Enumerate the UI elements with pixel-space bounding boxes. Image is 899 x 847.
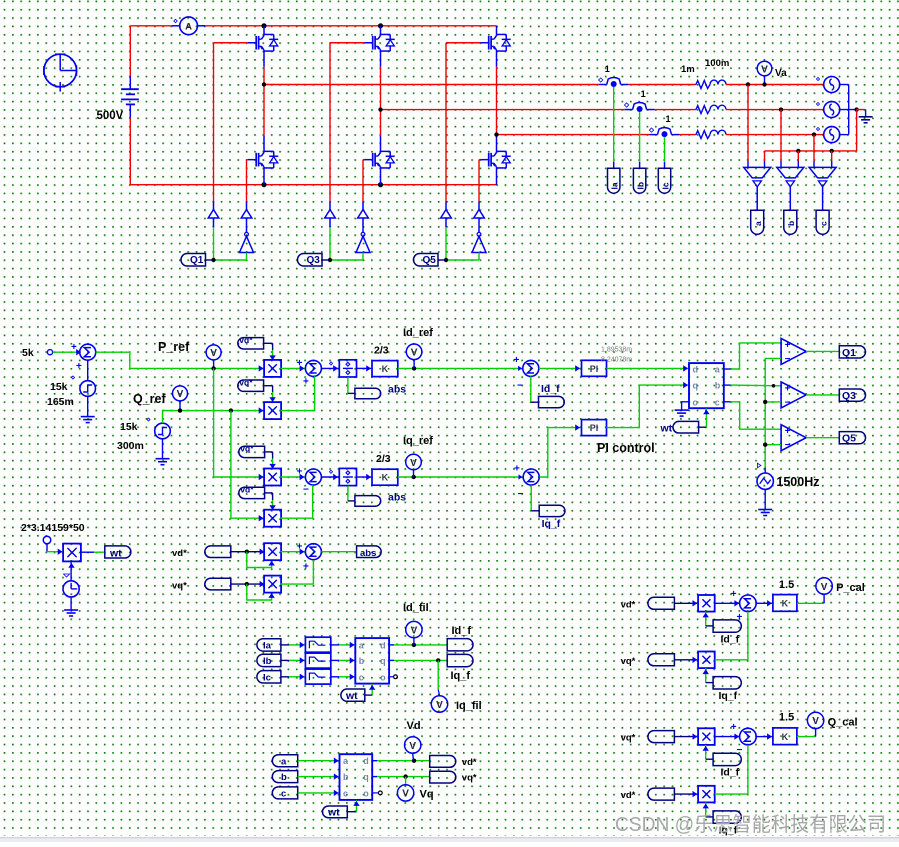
- svg-text:o: o: [363, 788, 369, 798]
- svg-text:Ic: Ic: [263, 672, 271, 683]
- wire vsensor1 right input: [764, 151, 766, 168]
- tag phase a: [751, 210, 764, 234]
- svg-text:V: V: [402, 789, 409, 800]
- wire sum4 to PI2: [540, 424, 581, 477]
- svg-text:V: V: [411, 348, 418, 359]
- tag Ia in: [257, 639, 281, 652]
- label PI control: [597, 441, 655, 455]
- svg-text:vq*: vq*: [239, 378, 253, 388]
- tag vq* Q_cal1: [648, 731, 675, 743]
- svg-text:Q3: Q3: [307, 255, 321, 266]
- wire vsensor3 output: [822, 186, 824, 210]
- tag Q1 out: [839, 346, 865, 359]
- label abs row2: [388, 492, 406, 504]
- svg-text:K: K: [382, 473, 389, 483]
- svg-text:b: b: [786, 221, 796, 226]
- voltage sensor Vb: [777, 167, 804, 187]
- current sensor Ib: [624, 89, 654, 112]
- wire mul2 to sum Q_cal: [715, 745, 748, 794]
- wire gate signal Q3: [330, 259, 363, 261]
- svg-text:1: 1: [641, 89, 646, 99]
- voltmeter Id_fil: [406, 621, 422, 645]
- wire vq* to mul P_cal2: [674, 657, 697, 663]
- wire sources common: [840, 85, 857, 135]
- wire top rail: [264, 25, 497, 27]
- label vq* store: [462, 773, 477, 784]
- step source 15k/165m: [71, 376, 95, 396]
- svg-text:abs: abs: [388, 492, 406, 504]
- wire sum to K P_cal: [756, 600, 772, 606]
- svg-text:5k: 5k: [22, 347, 34, 359]
- svg-text:b: b: [715, 381, 721, 391]
- wire sum to step1: [87, 360, 89, 381]
- wire o stub current: [389, 676, 394, 678]
- wire emitter bottom Q3b: [380, 168, 382, 185]
- wire filter1 to abc2dq: [331, 642, 355, 648]
- wire gate drive top Q1: [214, 43, 249, 202]
- clock symbol: [44, 54, 77, 91]
- svg-text:Iq_f: Iq_f: [542, 518, 561, 530]
- svg-text:+: +: [785, 383, 791, 394]
- svg-text:+: +: [737, 612, 743, 623]
- wire bottom rail: [130, 118, 496, 185]
- voltmeter Iq_fil: [431, 696, 447, 712]
- junction Id_fil tap: [412, 643, 416, 647]
- svg-text:wt: wt: [345, 690, 358, 702]
- svg-text:o: o: [380, 672, 386, 682]
- wire mulw to wt tag: [81, 551, 105, 553]
- svg-text:c: c: [343, 788, 348, 798]
- transistor Q5b (bottom IGBT): [481, 151, 511, 168]
- comparator comp1: [781, 338, 806, 365]
- svg-text:500V: 500V: [97, 110, 124, 122]
- ammeter A1: [174, 17, 198, 35]
- wire vd*3 to mul5: [231, 549, 265, 555]
- block dq2abc: [689, 363, 724, 408]
- junction vd*3: [245, 550, 249, 554]
- svg-text:V: V: [409, 741, 416, 752]
- junction Q_ref tap: [178, 408, 182, 412]
- junction bottom rail leg2: [378, 182, 383, 187]
- svg-text:b: b: [359, 656, 365, 666]
- tag Id_f Q_cal: [713, 753, 741, 765]
- wire gate drive bottom Q3: [363, 160, 365, 202]
- svg-text:+: +: [514, 355, 520, 366]
- inverter driver Q5: [472, 218, 486, 253]
- wire RL C to source: [726, 134, 824, 136]
- svg-text:K: K: [382, 364, 389, 374]
- svg-text:vd*: vd*: [621, 599, 636, 610]
- label 300m: [117, 440, 144, 452]
- summer sum4 Iq: [514, 464, 539, 501]
- wire Ib to filter: [281, 657, 305, 663]
- wire div1 abs input: [348, 377, 355, 393]
- junction carrier comp2: [763, 400, 767, 404]
- svg-text:100m: 100m: [705, 58, 729, 69]
- label vd* Q_cal2: [621, 790, 636, 801]
- AC source grid C: [816, 127, 839, 143]
- junction Iq_fil tap: [436, 658, 440, 662]
- svg-text:Ib: Ib: [635, 182, 645, 190]
- svg-text:+: +: [514, 464, 520, 475]
- svg-text:abs: abs: [388, 384, 406, 396]
- wire vd* to mul1: [264, 343, 276, 360]
- svg-text:Id_ref: Id_ref: [403, 327, 433, 339]
- wire vsensor1 output: [756, 186, 758, 210]
- wire neutral down: [765, 110, 857, 151]
- svg-text:abs: abs: [360, 548, 376, 559]
- svg-text:vd*: vd*: [172, 548, 187, 559]
- wire Ib sensor to tag: [639, 112, 641, 168]
- wire carrier net: [765, 358, 781, 467]
- wire wt to dq bottom: [699, 408, 710, 427]
- wire collector top Q1: [263, 26, 265, 35]
- svg-text:+: +: [785, 426, 791, 437]
- wire inverter input Q5: [478, 253, 480, 261]
- wire mul to sum P_cal: [715, 600, 740, 606]
- tag Iq_f row2: [539, 505, 565, 516]
- junction Q_ref branch: [229, 408, 233, 412]
- wire sensor A to RL: [629, 84, 696, 86]
- svg-text:Ib: Ib: [263, 656, 272, 667]
- summer P_ref: [71, 342, 96, 372]
- wire sum to K Q_cal: [756, 733, 772, 739]
- svg-text:Q_cal: Q_cal: [828, 716, 858, 728]
- junction phase C: [494, 132, 498, 136]
- svg-text:165m: 165m: [47, 396, 74, 408]
- label Iq_ref: [403, 435, 433, 447]
- current sensor Ic: [649, 114, 679, 137]
- RL branch phase A: [696, 80, 726, 88]
- tag vd* P_cal1: [648, 597, 675, 609]
- wire comp3 to Q5: [806, 437, 839, 439]
- svg-text:a: a: [281, 756, 287, 767]
- voltage sensor Vc: [809, 167, 836, 187]
- label Id_f Q_cal: [721, 767, 740, 779]
- wire RL B to source: [726, 109, 824, 111]
- wire filter3 to abc2dq: [331, 674, 355, 680]
- wire sum5 to abs tag: [321, 551, 356, 553]
- svg-text:Q_ref: Q_ref: [133, 392, 166, 406]
- svg-text:A: A: [185, 22, 192, 33]
- wire leg mid Q5: [496, 51, 498, 151]
- wire battery+ to ammeter: [130, 26, 179, 76]
- svg-text:P_cal: P_cal: [836, 582, 865, 594]
- junction gate signal Q5: [444, 258, 448, 262]
- voltmeter P_cal: [816, 578, 832, 594]
- multiplier mul4: [264, 510, 281, 527]
- tag vq* P_cal2: [648, 654, 675, 666]
- label 1m: [681, 64, 695, 75]
- svg-text:c: c: [359, 672, 364, 682]
- label Vd: [407, 720, 421, 732]
- svg-text:K: K: [782, 732, 789, 742]
- label 165m: [47, 396, 74, 408]
- wire emitter bottom Q1b: [263, 168, 265, 185]
- wire div2 to K2: [357, 474, 372, 480]
- tag abs row1: [355, 388, 381, 399]
- junction neutral b2: [796, 149, 800, 153]
- svg-text:vq*: vq*: [621, 733, 636, 744]
- svg-text:d: d: [363, 756, 369, 766]
- wire inverter input Q1: [246, 253, 248, 261]
- svg-text:V: V: [411, 625, 418, 636]
- transistor Q1 (top IGBT): [248, 34, 278, 51]
- wire Ic to filter: [281, 674, 305, 680]
- wire gate drive bottom Q5: [479, 160, 481, 202]
- svg-text:+: +: [731, 589, 737, 600]
- tag Ib: [633, 168, 645, 193]
- wire carrier to ground: [764, 489, 766, 509]
- svg-text:b: b: [281, 772, 287, 783]
- summer sum3 Id: [514, 355, 539, 392]
- label 5k: [22, 347, 34, 359]
- svg-text:d: d: [380, 640, 386, 650]
- wire leg mid Q1: [263, 51, 265, 151]
- wire buffer top input Q5: [445, 218, 447, 260]
- triangle source 1500Hz: [757, 463, 773, 489]
- wire wconst to mulw: [47, 544, 63, 555]
- tag Iq_f Q_cal: [713, 811, 741, 823]
- wire mul1 to sum1: [280, 365, 305, 371]
- wire mul to sum Q_cal: [715, 733, 740, 739]
- svg-text:Vq: Vq: [420, 789, 434, 801]
- junction carrier comp3: [763, 443, 767, 447]
- svg-text:−: −: [518, 489, 524, 500]
- svg-text:Q1: Q1: [190, 255, 204, 266]
- svg-text:Q5: Q5: [842, 433, 856, 445]
- wire P_ref net: [96, 352, 265, 371]
- junction Id_ref tap: [412, 366, 416, 370]
- multiplier P_cal mul2: [698, 652, 715, 669]
- wire vq*4 selfloop: [247, 584, 275, 600]
- svg-text:Ic: Ic: [660, 182, 670, 189]
- tag Iq_f store: [447, 654, 473, 666]
- ground dq block: [675, 410, 689, 416]
- svg-text:PI control: PI control: [597, 441, 655, 455]
- multiplier mul6: [264, 576, 281, 593]
- junction Vq tap: [403, 774, 407, 778]
- svg-text:vd*: vd*: [621, 790, 636, 801]
- tag vd* row2: [239, 485, 265, 499]
- watermark: [615, 813, 886, 836]
- wire mul6 to sum5: [280, 560, 313, 584]
- label Id_fil: [403, 602, 429, 614]
- step source 15k/300m: [147, 418, 170, 439]
- wire dq o to ground: [682, 402, 689, 410]
- tag wt dq: [673, 421, 699, 433]
- wire Id_f net: [389, 644, 447, 646]
- tag Ic in: [257, 671, 281, 684]
- buffer driver top Q3: [325, 202, 336, 219]
- wire vd* net: [372, 760, 430, 762]
- tag vq* store: [430, 771, 456, 783]
- label 15k a: [50, 381, 68, 393]
- voltmeter Q_ref: [173, 386, 188, 411]
- svg-text:Iq_fil: Iq_fil: [456, 700, 482, 712]
- wire Q_ref to row2b: [231, 411, 265, 522]
- svg-text:+: +: [303, 376, 309, 387]
- wire leg mid Q3: [380, 51, 382, 151]
- wire ammeter to top rail: [198, 25, 265, 27]
- junction top rail leg2: [378, 23, 383, 28]
- svg-text:Q3: Q3: [842, 390, 856, 402]
- svg-text:1m: 1m: [681, 64, 695, 75]
- svg-text:c: c: [715, 397, 720, 407]
- svg-text:V: V: [177, 389, 184, 400]
- junction vq*4: [245, 582, 249, 586]
- tag Q3 out: [839, 389, 865, 402]
- svg-text:V: V: [436, 700, 443, 711]
- wire div1 to K1: [357, 365, 372, 371]
- wire filter2 to abc2dq: [331, 657, 355, 663]
- wire time to mulw: [64, 561, 75, 580]
- wire inverter input Q3: [362, 253, 364, 261]
- svg-text:q: q: [693, 381, 699, 391]
- label abs row1: [388, 384, 406, 396]
- node o current: [394, 675, 398, 679]
- svg-text:−: −: [303, 484, 309, 495]
- wire vd*3 selfloop: [247, 552, 275, 568]
- svg-text:Id_f: Id_f: [721, 767, 740, 779]
- AC source grid A: [816, 77, 839, 93]
- multiplier mul3: [264, 469, 281, 486]
- svg-text:+: +: [71, 342, 77, 353]
- junction Iq_ref tap: [412, 475, 416, 479]
- wire gate signal Q1: [214, 259, 247, 261]
- junction top rail leg1: [261, 23, 266, 28]
- ground carrier: [758, 510, 772, 516]
- label Id_f store: [452, 625, 472, 637]
- filter LPF Ia: [305, 637, 330, 652]
- tag a voltage in: [272, 755, 297, 768]
- wire vsensor3 left input: [813, 135, 815, 168]
- tag vq* row1: [238, 378, 264, 392]
- ground time: [64, 610, 78, 616]
- svg-text:+: +: [785, 340, 791, 351]
- summer sum1: [297, 358, 322, 387]
- wire Iq_f to mul Q_cal: [703, 802, 714, 817]
- svg-text:vq*: vq*: [240, 444, 254, 454]
- wire Id_f to mul Q_cal: [703, 745, 714, 759]
- wire o stub voltage: [372, 792, 378, 794]
- svg-text:Iq_ref: Iq_ref: [403, 435, 433, 447]
- label Id_f P_cal: [721, 633, 740, 645]
- wire b to abc2dq2: [298, 773, 339, 779]
- wire vd* to mul P_cal1: [674, 600, 697, 606]
- tag vq* row4: [205, 578, 231, 590]
- label Iq_f P_cal: [719, 690, 738, 702]
- summer sum2: [297, 467, 322, 496]
- wire phase A output: [264, 84, 599, 86]
- tag phase c: [816, 210, 829, 234]
- svg-text:2/3: 2/3: [376, 453, 391, 465]
- transistor Q3b (bottom IGBT): [365, 151, 395, 168]
- label 1.5 Q_cal: [779, 712, 794, 724]
- node wconst: [43, 536, 51, 544]
- wire gate drive bottom Q1: [247, 160, 249, 202]
- comparator comp3: [781, 425, 806, 452]
- node o voltage: [378, 791, 382, 795]
- junction Vd tap: [412, 759, 416, 763]
- label Q_cal: [828, 716, 858, 728]
- wire gate drive top Q3: [330, 43, 365, 202]
- svg-text:Vd: Vd: [407, 720, 421, 732]
- label vq* P_cal2: [621, 656, 636, 667]
- bottom window strip: [0, 838, 899, 842]
- voltmeter Vd: [405, 737, 421, 761]
- wire vd* to mul Q_cal2: [674, 791, 697, 797]
- junction phase A: [262, 82, 266, 86]
- divider div2: [339, 468, 356, 485]
- transistor Q3 (top IGBT): [365, 34, 395, 51]
- wire K to meter Q_cal: [797, 729, 816, 737]
- svg-text:Iq_f: Iq_f: [451, 670, 471, 682]
- svg-text:Iq_f: Iq_f: [719, 690, 738, 702]
- wire wt to abc2dq2: [347, 800, 359, 812]
- ground step2: [156, 459, 170, 465]
- label Iq_f store: [451, 670, 471, 682]
- multiplier mul2: [264, 402, 281, 419]
- svg-text:15k: 15k: [50, 381, 68, 393]
- junction gate signal Q1: [211, 258, 215, 262]
- wire vq* to mul3: [265, 452, 276, 469]
- label 2/3 row2: [376, 453, 391, 465]
- summer P_cal: [731, 589, 757, 623]
- tag Id_f row1: [539, 396, 565, 407]
- svg-text:Id_f: Id_f: [452, 625, 472, 637]
- svg-text:1: 1: [666, 114, 671, 124]
- label 1.5 P_cal: [779, 579, 794, 591]
- label vq* Q_cal1: [621, 733, 636, 744]
- AC source grid B: [816, 102, 839, 118]
- label 2*3.14159*50: [21, 522, 85, 534]
- label P_ref: [158, 340, 190, 354]
- tag Q5 gate: [413, 254, 446, 267]
- wire K to meter P_cal: [797, 594, 824, 603]
- wire vq* to mul Q_cal1: [674, 733, 697, 739]
- wire Id_f to mul P_cal: [703, 612, 714, 626]
- node 5k: [47, 350, 52, 355]
- multiplier mulw: [63, 544, 81, 562]
- tag Q3 gate: [298, 254, 331, 267]
- junction phase B: [378, 107, 382, 111]
- svg-text:Va: Va: [775, 68, 787, 79]
- svg-text:Ia: Ia: [263, 641, 272, 652]
- wire sum3 to PI1: [539, 365, 581, 371]
- svg-text:+: +: [297, 358, 303, 369]
- svg-text:o: o: [693, 397, 699, 407]
- wire vsensor2 left input: [780, 110, 782, 168]
- voltmeter Iq_ref: [406, 454, 422, 477]
- RL branch phase B: [696, 105, 726, 113]
- buffer driver bottom Q3: [358, 202, 369, 219]
- svg-text:V: V: [210, 348, 217, 359]
- svg-text:V: V: [821, 582, 828, 593]
- voltmeter Va: [757, 61, 787, 84]
- wire Id_f to sum3: [531, 376, 539, 402]
- svg-text:2*3.14159*50: 2*3.14159*50: [21, 522, 85, 534]
- wire mul3 to sum2: [280, 474, 305, 480]
- wire phase B output: [381, 109, 625, 111]
- svg-text:vd*: vd*: [462, 757, 477, 768]
- multiplier mul5: [264, 543, 281, 560]
- svg-text:1: 1: [605, 64, 610, 74]
- label P_cal: [836, 582, 865, 594]
- tag Ic: [658, 168, 670, 193]
- svg-text:CSDN @乐思智能科技有限公司: CSDN @乐思智能科技有限公司: [615, 813, 886, 836]
- buffer driver bottom Q1: [241, 202, 252, 219]
